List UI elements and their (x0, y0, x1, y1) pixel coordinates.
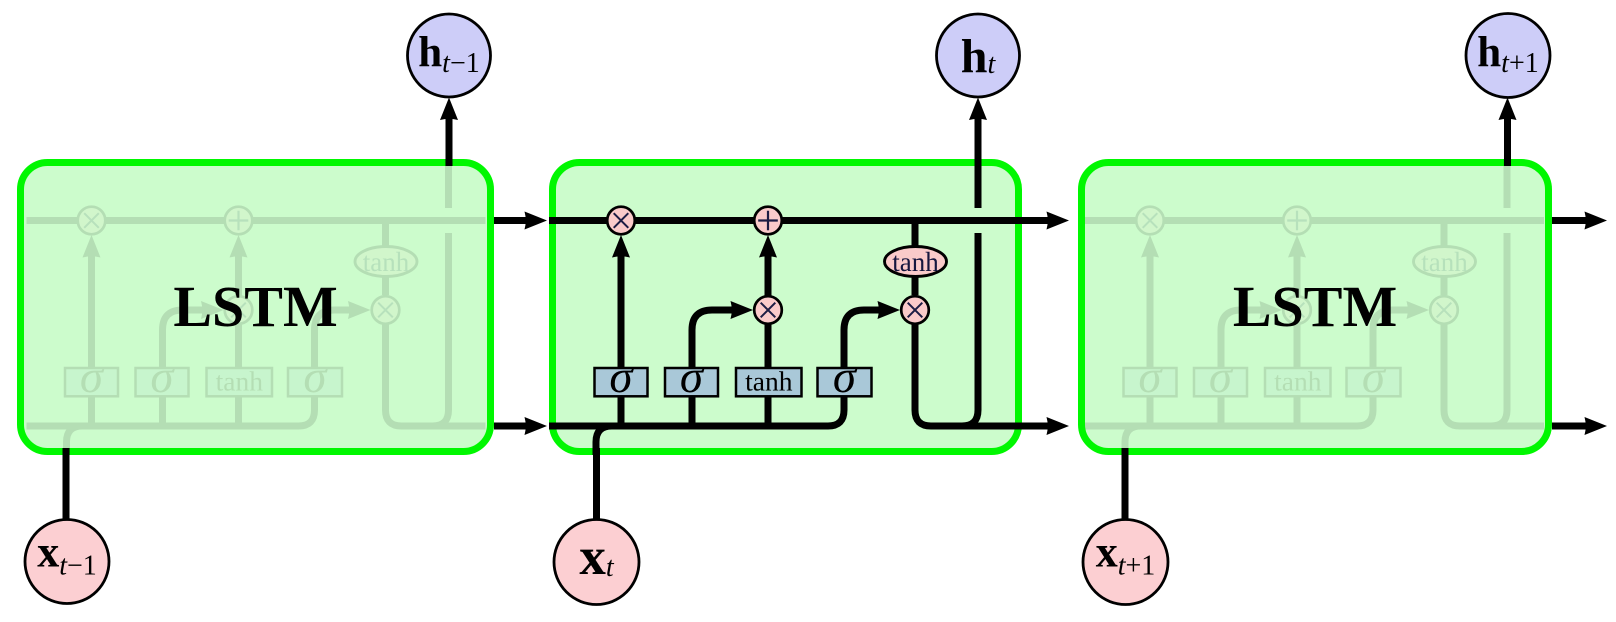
wire: hidden state arrow out of right cell (1552, 423, 1592, 430)
wire: h output arrow of left cell (446, 112, 453, 166)
wire: cell state arrow out of right cell (1552, 217, 1592, 224)
svg-text:LSTM: LSTM (1233, 274, 1397, 339)
wire: x input connector of left cell (63, 448, 70, 520)
wire: h output arrow of middle cell (975, 112, 982, 166)
right LSTM cell box (1082, 163, 1549, 452)
wire: x input connector of right cell (1122, 448, 1129, 520)
wire: cell state arrow left cell to middle cell (494, 217, 532, 224)
wire: x input connector of middle cell (593, 448, 600, 520)
node: x_t input circle (554, 520, 639, 605)
faded internals of left LSTM cell (27, 159, 486, 455)
node: x_{t+1} input circle (1083, 520, 1168, 605)
node: h_{t-1} output circle (408, 14, 491, 97)
wire: hidden state arrow left cell to middle cell (494, 423, 532, 430)
wire: cell state arrow middle cell to right cell (1022, 217, 1055, 224)
svg-text:LSTM: LSTM (173, 274, 337, 339)
node: h_{t+1} output circle (1466, 14, 1550, 98)
wire: hidden state line crossing middle cell borders (549, 423, 1022, 430)
wire: hidden state arrow middle cell to right cell (1022, 423, 1055, 430)
internals of middle LSTM cell (556, 159, 1015, 455)
node: h_t output circle (937, 14, 1020, 97)
faded internals of right LSTM cell (1085, 159, 1544, 455)
wire: h output arrow of right cell (1504, 112, 1511, 166)
wire: cell state line crossing middle cell borders (549, 217, 1022, 224)
middle LSTM cell box (553, 163, 1019, 452)
node: x_{t-1} input circle (25, 520, 109, 604)
left LSTM cell box (21, 163, 491, 452)
